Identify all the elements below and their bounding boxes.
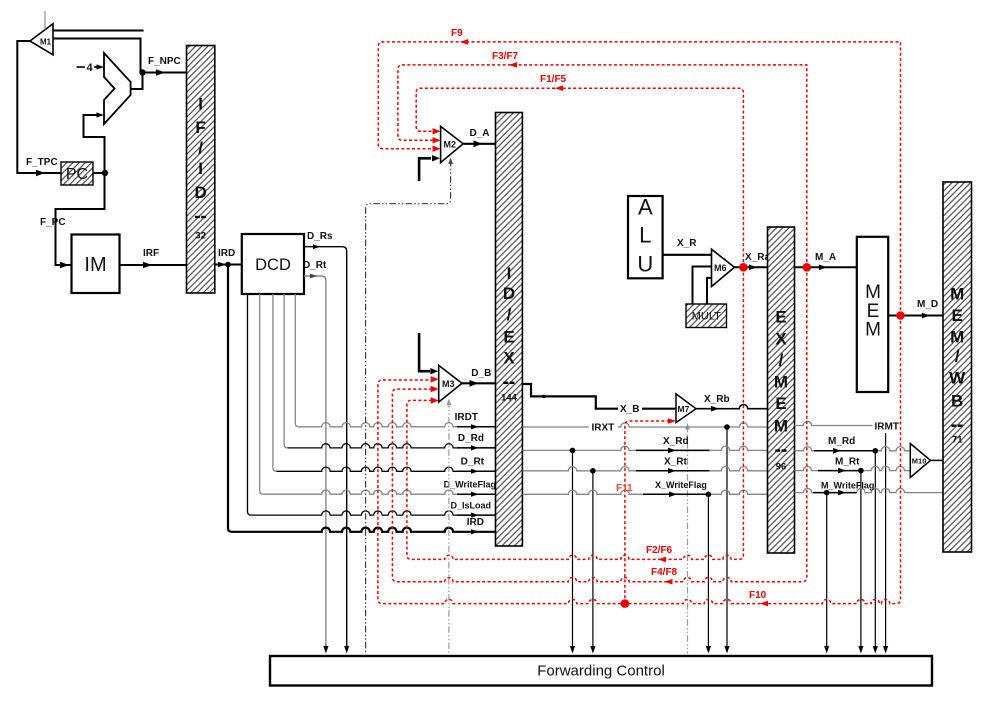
svg-text:M_Rt: M_Rt — [835, 456, 860, 467]
svg-text:E: E — [952, 306, 963, 325]
svg-text:D_IsLoad: D_IsLoad — [450, 500, 491, 510]
node IRXT tap junction — [724, 424, 730, 430]
svg-text:X_Ra: X_Ra — [745, 252, 770, 263]
wire MULT lo to M6 — [707, 278, 712, 304]
wire F4/F8 forwarding path (M_A to M3) — [392, 267, 806, 584]
constant 4 input to adder — [77, 62, 105, 74]
svg-text:IRDT: IRDT — [455, 412, 478, 423]
svg-text:DCD: DCD — [255, 256, 291, 274]
node IRD junction — [225, 262, 231, 268]
wire X_Ra from M6 to EX/MEM — [735, 252, 771, 270]
wire MULT hi to M6 — [693, 267, 712, 305]
wire X_WriteFlag bus EX stage — [522, 480, 768, 497]
wire F_NPC adder output to IF/ID — [131, 56, 187, 89]
svg-text:M6: M6 — [714, 263, 727, 273]
select line into M1 — [44, 11, 46, 30]
svg-text:M7: M7 — [678, 404, 690, 414]
register ID/EX — [496, 113, 523, 547]
svg-text:M3: M3 — [442, 379, 455, 389]
svg-text:X_Rt: X_Rt — [664, 457, 687, 468]
wire X_R from ALU to M6 — [663, 238, 712, 255]
wire M_WriteFlag bus MEM stage — [795, 480, 944, 495]
svg-text:32: 32 — [195, 231, 206, 242]
wire F_TPC from M1 to PC — [17, 41, 61, 176]
wire D_IsLoad bus into ID/EX — [248, 294, 496, 518]
svg-text:M: M — [950, 328, 964, 347]
node X_Ra forwarding tap (red) — [739, 263, 748, 272]
svg-text:D_Rt: D_Rt — [461, 457, 485, 468]
wire IRXT bus EX stage — [522, 421, 768, 434]
svg-text:F11: F11 — [616, 483, 633, 494]
wire F3/F7 forwarding path (M_A to M2) — [398, 51, 807, 267]
svg-text:IRF: IRF — [143, 248, 159, 259]
register MEM/WB — [943, 182, 972, 552]
wire D_A from M2 to ID/EX — [463, 128, 495, 147]
svg-text:F9: F9 — [451, 28, 463, 39]
svg-text:U: U — [637, 252, 653, 277]
wire X_Rt tap to Forwarding Control — [590, 471, 595, 654]
mux M1 — [30, 24, 53, 55]
wire PC to PC-junction — [93, 172, 105, 174]
svg-text:I: I — [198, 95, 203, 114]
wire F10 forwarding path (M_D to M3) — [378, 316, 901, 607]
register IF/ID — [187, 46, 215, 294]
wire F_NPC feedback to M1 — [53, 39, 141, 73]
svg-text:M2: M2 — [444, 139, 457, 149]
wire IRMT tap to Forwarding Control — [883, 433, 888, 654]
wire IRDT bus into ID/EX — [295, 294, 495, 429]
wire X_Rb from M7 to EX/MEM — [696, 394, 768, 412]
node X_WriteFlag tap junction — [706, 492, 712, 498]
svg-text:M_WriteFlag: M_WriteFlag — [821, 480, 874, 490]
node M_WriteFlag tap junction — [824, 490, 830, 496]
svg-text:IRMT: IRMT — [875, 421, 899, 432]
wire M_Rd bus MEM stage — [795, 436, 911, 454]
svg-text:W: W — [949, 369, 966, 388]
wire M_Rd tap to Forwarding Control — [873, 451, 878, 654]
wire F9 forwarding path (M_D to M2) — [378, 28, 900, 316]
node PC output junction — [102, 170, 108, 176]
svg-text:M_Rd: M_Rd — [828, 436, 855, 447]
node M_A forwarding tap (red) — [803, 263, 812, 272]
svg-text:F: F — [195, 118, 205, 137]
wire register-file stub into M2 — [419, 155, 440, 181]
svg-text:I: I — [507, 264, 512, 283]
svg-text:IRD: IRD — [467, 517, 484, 528]
mux M3 — [439, 365, 462, 402]
wire X_WriteFlag tap to Forwarding Control — [706, 494, 711, 653]
node M_Rd tap junction — [873, 448, 879, 454]
svg-text:/: / — [507, 305, 512, 324]
svg-text:F3/F7: F3/F7 — [492, 51, 519, 62]
svg-text:I: I — [198, 159, 203, 178]
node on X_B wire — [542, 395, 546, 399]
svg-text:/: / — [779, 351, 784, 370]
wire X_Rd tap to Forwarding Control — [570, 450, 575, 653]
node X_Rd tap junction — [570, 448, 576, 454]
svg-text:M: M — [950, 285, 964, 304]
svg-text:M1: M1 — [40, 37, 52, 46]
select line into M3 from Forwarding Control — [447, 399, 452, 654]
wire M10 output to MEM/WB — [931, 459, 944, 461]
wire D_B from M3 to ID/EX — [462, 368, 496, 387]
svg-text:PC: PC — [66, 166, 88, 183]
wire M_Rt tap to Forwarding Control — [858, 471, 863, 654]
wire M_WriteFlag tap to Forwarding Control — [824, 493, 829, 654]
svg-text:D_Rs: D_Rs — [307, 231, 333, 242]
svg-text:M: M — [865, 282, 881, 303]
wire IRD from IF/ID to DCD — [215, 248, 242, 267]
svg-text:E: E — [503, 328, 514, 347]
svg-text:IM: IM — [84, 254, 106, 276]
node X_Rt tap junction — [590, 468, 596, 474]
svg-text:D_B: D_B — [471, 368, 491, 379]
mux M7 — [676, 394, 696, 423]
svg-text:M10: M10 — [912, 456, 927, 465]
wire X_B from ID/EX to M7 — [522, 384, 676, 415]
svg-text:A: A — [638, 195, 653, 220]
svg-text:B: B — [951, 392, 963, 411]
register EX/MEM — [768, 227, 795, 553]
svg-text:D: D — [194, 183, 206, 202]
svg-text:X_B: X_B — [620, 404, 639, 415]
node M_Rt tap junction — [858, 468, 864, 474]
svg-text:X_WriteFlag: X_WriteFlag — [655, 480, 707, 490]
svg-text:F_PC: F_PC — [40, 217, 66, 228]
select line into M7 from Forwarding Control — [685, 423, 690, 654]
svg-text:X_R: X_R — [677, 238, 697, 249]
wire X_Rd bus EX stage — [522, 436, 768, 453]
svg-text:D_WriteFlag: D_WriteFlag — [444, 479, 496, 489]
mux M6 — [712, 249, 735, 286]
wire M_Rt bus MEM stage — [795, 456, 911, 473]
wire F2/F6 forwarding path (X_Ra to M3) — [407, 267, 744, 562]
wire IRXT tap to Forwarding Control — [724, 427, 729, 654]
wire D_Rt bus into ID/EX — [273, 294, 496, 474]
svg-text:X_Rd: X_Rd — [663, 436, 689, 447]
mux M10 — [910, 444, 930, 478]
svg-text:F4/F8: F4/F8 — [651, 567, 678, 578]
register PC — [61, 162, 93, 185]
wire IRMT bus MEM stage — [795, 421, 899, 432]
svg-text:X_Rb: X_Rb — [704, 394, 730, 405]
wire PC to adder input — [84, 112, 105, 173]
box ALU — [628, 195, 663, 279]
wire IRF from IM to IF/ID — [120, 248, 187, 268]
svg-text:E: E — [775, 308, 786, 327]
wire M_D from MEM to MEM/WB — [888, 299, 943, 318]
svg-text:D_Rd: D_Rd — [458, 433, 484, 444]
wire F_PC from PC to IM — [40, 173, 105, 268]
svg-text:D_Rt: D_Rt — [303, 260, 327, 271]
svg-text:F10: F10 — [749, 590, 767, 601]
box DCD decoder — [242, 234, 304, 294]
wire D_Rd bus into ID/EX — [284, 294, 495, 451]
wire M_A from EX/MEM to MEM — [795, 252, 857, 270]
adder PC+4 — [104, 53, 131, 124]
svg-text:4: 4 — [87, 62, 94, 74]
svg-text:M: M — [865, 320, 881, 341]
svg-text:M_D: M_D — [917, 299, 938, 310]
select line into M2 from Forwarding Control — [366, 158, 453, 654]
box Forwarding Control — [270, 656, 932, 686]
wire D_WriteFlag bus into ID/EX — [260, 294, 496, 497]
svg-text:L: L — [639, 223, 651, 248]
svg-text:M_A: M_A — [815, 252, 836, 263]
svg-text:M: M — [774, 373, 788, 392]
svg-text:IRXT: IRXT — [592, 423, 615, 434]
svg-text:F2/F6: F2/F6 — [646, 545, 673, 556]
svg-text:E: E — [775, 394, 786, 413]
svg-text:MULT: MULT — [692, 311, 721, 323]
wire D_Rs from DCD to Forwarding Control — [304, 231, 349, 654]
wire IRD bus into ID/EX — [228, 265, 496, 535]
svg-text:D: D — [503, 284, 515, 303]
wire branch-target stub into M1 — [53, 30, 144, 32]
svg-text:D_A: D_A — [470, 128, 490, 139]
svg-text:IRD: IRD — [218, 248, 235, 259]
svg-text:X: X — [503, 349, 515, 368]
mux M2 — [441, 126, 464, 162]
wire F1/F5 forwarding path (X_Ra to M2) — [416, 74, 743, 267]
svg-text:Forwarding Control: Forwarding Control — [537, 662, 665, 679]
svg-text:/: / — [198, 139, 203, 158]
svg-text:F1/F5: F1/F5 — [540, 74, 567, 85]
svg-text:F_NPC: F_NPC — [148, 56, 181, 67]
svg-text:X: X — [775, 330, 787, 349]
svg-text:/: / — [955, 347, 960, 366]
node F_NPC junction — [139, 69, 145, 75]
node F10/F11 junction (red) — [621, 599, 630, 608]
svg-text:71: 71 — [952, 435, 963, 446]
node M_D forwarding tap (red) — [896, 311, 905, 320]
svg-text:96: 96 — [776, 462, 787, 473]
box MEM data memory — [857, 237, 888, 392]
wire F11 forwarding path (F10 to M7) — [616, 418, 676, 603]
wire register-file stub into M3 — [419, 333, 438, 374]
box MULT — [686, 304, 727, 328]
svg-text:M: M — [774, 417, 788, 436]
svg-text:144: 144 — [501, 393, 518, 404]
box IM instruction memory — [72, 235, 120, 294]
svg-text:F_TPC: F_TPC — [26, 157, 58, 168]
wire X_Rt bus EX stage — [522, 457, 768, 474]
wire D_Rt from DCD to Forwarding Control — [303, 260, 329, 654]
